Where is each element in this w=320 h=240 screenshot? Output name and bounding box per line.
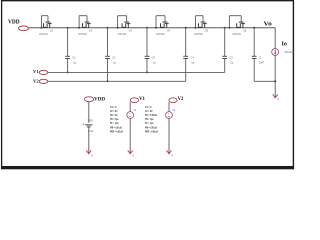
offpage connector V2 (source)	[169, 98, 177, 103]
node N3	[146, 27, 148, 29]
svg-text:C2: C2	[112, 55, 116, 59]
svg-text:TR = 1ps: TR = 1ps	[145, 118, 154, 121]
svg-text:C3: C3	[152, 55, 156, 59]
wire V1 source top	[129, 102, 131, 111]
wire Io bottom	[274, 56, 276, 95]
svg-text:CMOSN: CMOSN	[194, 33, 203, 36]
ground 0 (Io)	[273, 94, 278, 97]
svg-text:20fF: 20fF	[259, 61, 265, 65]
wire CL drop	[253, 28, 255, 57]
wire drop N3	[146, 28, 148, 57]
svg-text:VDD: VDD	[94, 96, 105, 102]
svg-text:Vo: Vo	[264, 21, 272, 28]
wire gate loop U1	[41, 16, 43, 28]
wire drop N1	[67, 28, 69, 57]
transistor U3 CMOSN	[126, 16, 128, 23]
svg-text:50uAdc: 50uAdc	[285, 51, 295, 54]
wire V2 bus	[48, 80, 186, 82]
capacitor C3 1p	[145, 55, 150, 57]
wire V1 source bottom	[129, 119, 131, 151]
wire drop N4	[185, 28, 187, 57]
svg-text:C5: C5	[229, 55, 233, 59]
svg-text:1p: 1p	[113, 61, 116, 65]
node N2	[107, 27, 109, 29]
wire CL bottom	[253, 59, 255, 82]
border frame	[1, 0, 294, 2]
svg-text:CL: CL	[259, 55, 263, 59]
transistor U1 CMOSN	[47, 16, 49, 23]
node N4	[185, 27, 187, 29]
svg-text:CMOSN: CMOSN	[118, 33, 127, 36]
capacitor C2 1p	[105, 55, 110, 57]
offpage connector VDD (source)	[84, 97, 93, 102]
capacitor CL 20fF	[252, 55, 257, 57]
svg-text:CMOSN: CMOSN	[78, 33, 87, 36]
svg-text:V2 = 2V: V2 = 2V	[145, 110, 153, 113]
wire VDD rail	[29, 27, 275, 29]
capacitor C1 1p	[65, 55, 70, 57]
wire VDD source top	[88, 102, 90, 123]
svg-text:C1: C1	[72, 55, 76, 59]
svg-text:V1 = 0: V1 = 0	[145, 106, 152, 109]
wire V1 bus	[48, 71, 225, 73]
wire C3 bottom	[146, 59, 148, 73]
svg-text:1p: 1p	[73, 61, 76, 65]
svg-text:TR = 1ps: TR = 1ps	[110, 118, 119, 121]
svg-text:1p: 1p	[153, 61, 156, 65]
svg-text:V1: V1	[33, 69, 39, 74]
svg-text:TD = 0s: TD = 0s	[110, 114, 118, 117]
svg-text:V1: V1	[139, 97, 145, 102]
svg-text:PER = 0.02uS: PER = 0.02uS	[145, 130, 158, 133]
svg-text:VDD: VDD	[8, 19, 20, 25]
svg-text:CMOSN: CMOSN	[39, 33, 48, 36]
wire VDD source bottom	[88, 127, 90, 151]
svg-text:CMOSN: CMOSN	[232, 33, 241, 36]
svg-text:TD = 0.01uS: TD = 0.01uS	[145, 114, 157, 117]
transistor U4 CMOSN	[164, 16, 166, 23]
wire gate loop U3	[117, 16, 119, 28]
svg-text:V1 = 0: V1 = 0	[110, 106, 117, 109]
wire drop N2	[107, 28, 109, 57]
svg-text:1p: 1p	[191, 61, 194, 65]
wire CL to Io	[254, 80, 275, 82]
wire V2 source bottom	[168, 119, 170, 151]
svg-text:TF = 1ps: TF = 1ps	[110, 122, 119, 125]
wire C2 bottom	[107, 59, 109, 82]
transistor U2 CMOSN	[86, 16, 88, 23]
offpage connector V1 (source)	[130, 98, 138, 103]
transistor U5 CMOSN	[202, 16, 204, 23]
svg-text:C4: C4	[190, 55, 194, 59]
svg-text:V2: V2	[33, 79, 39, 84]
svg-text:PER = 0.02uS: PER = 0.02uS	[110, 130, 123, 133]
svg-text:V2: V2	[178, 97, 184, 102]
svg-text:VDD: VDD	[88, 119, 93, 122]
ground 0 (V1)	[128, 150, 133, 153]
voltage source V2 VPULSE	[166, 112, 173, 119]
wire drop N5	[224, 28, 226, 57]
transistor U6 CMOSN	[240, 16, 242, 23]
capacitor C5 1p	[222, 55, 227, 57]
ground 0 (VDD)	[86, 150, 91, 153]
svg-text:PW = 0.01uS: PW = 0.01uS	[145, 126, 157, 129]
svg-text:V2 = 2V: V2 = 2V	[110, 110, 118, 113]
svg-text:+: +	[82, 123, 84, 127]
svg-text:CMOSN: CMOSN	[156, 33, 165, 36]
wire gate loop U5	[195, 16, 197, 28]
ground 0 (V2)	[167, 150, 172, 153]
wire C5 bottom	[224, 59, 226, 73]
wire gate loop U6	[228, 16, 230, 28]
node N1	[67, 27, 69, 29]
svg-text:1p: 1p	[230, 61, 233, 65]
wire gate loop U4	[155, 16, 157, 28]
svg-text:TF = 1ps: TF = 1ps	[145, 122, 154, 125]
wire C4 bottom	[185, 59, 187, 82]
capacitor C4 1p	[183, 55, 188, 57]
wire gate loop U2	[78, 16, 80, 28]
node N5	[224, 27, 226, 29]
wire C1 bottom	[67, 59, 69, 73]
svg-text:Io: Io	[282, 42, 287, 48]
wire V2 source top	[168, 102, 170, 111]
svg-text:PW = 0.01uS: PW = 0.01uS	[110, 126, 122, 129]
voltage source V1 VPULSE	[127, 112, 134, 119]
